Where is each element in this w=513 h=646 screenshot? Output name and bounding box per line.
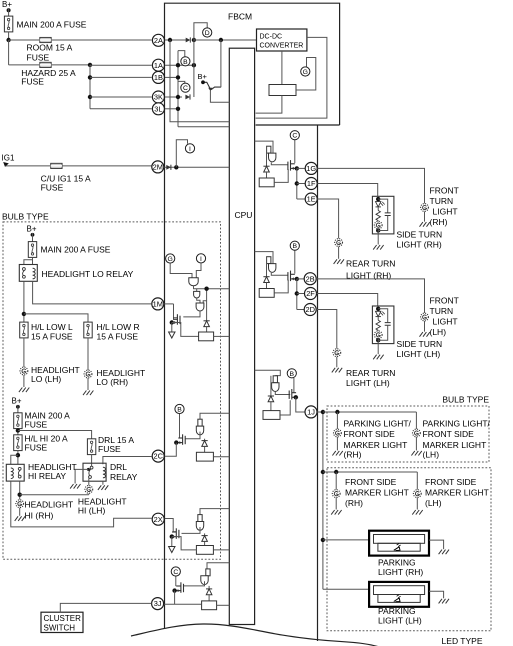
svg-text:FRONT SIDE: FRONT SIDE xyxy=(425,477,477,487)
svg-text:2C: 2C xyxy=(153,452,163,461)
svg-text:ROOM 15 A: ROOM 15 A xyxy=(27,43,73,53)
connector pin 1B xyxy=(152,71,164,83)
supply circle C (turn RH driver U1) xyxy=(290,131,299,140)
svg-text:(RH): (RH) xyxy=(345,498,363,508)
diode clamp (3J) xyxy=(206,589,212,595)
node hi relay split xyxy=(16,453,20,457)
svg-text:C: C xyxy=(183,85,188,92)
wire gate output to FET gate (turn LH driver U2) xyxy=(271,273,288,275)
wire DC-DC bottom to resistor xyxy=(281,51,283,85)
resistor sense (turn LH driver U2) xyxy=(259,289,274,298)
capacitor branch wires xyxy=(378,199,388,212)
wire resistor bottom to CPU xyxy=(256,96,282,114)
wire 3L into module xyxy=(164,108,178,110)
wire supply circle to FET drain (turn RH driver U1) xyxy=(294,140,296,163)
node 3K tap xyxy=(88,95,92,99)
diode clamp (2C) xyxy=(202,441,208,447)
capacitor lower wire xyxy=(378,325,388,340)
wire hi rh bulb to ground xyxy=(19,508,21,516)
signal circle G (lighting switch) xyxy=(166,254,175,263)
svg-text:(LH): (LH) xyxy=(430,327,447,337)
svg-text:(RH): (RH) xyxy=(344,449,362,459)
wire bulb to ground (lo rh) xyxy=(87,378,89,390)
output arrow (to ground) xyxy=(169,332,175,338)
wire FBCM internal rail to right edge xyxy=(256,124,340,126)
relay coil (DRL relay) xyxy=(103,467,106,478)
lamp REAR TURN LIGHT (RH) xyxy=(335,239,343,247)
wire pin 1G to front turn RH xyxy=(317,168,424,203)
wire ROOM fuse to pin 2A xyxy=(51,39,152,41)
wire diode to resistor (2C) xyxy=(204,446,206,452)
svg-text:REAR TURN: REAR TURN xyxy=(346,259,395,269)
module inner lower box xyxy=(378,543,420,551)
wire gate output to FET gate (2X) xyxy=(182,527,201,533)
wire front turn RH to ground xyxy=(424,212,426,222)
svg-text:B+: B+ xyxy=(27,225,37,234)
ground (DRL relay NC) xyxy=(70,484,80,489)
wire G to gate1 xyxy=(170,263,192,278)
FBCM module outline xyxy=(165,3,340,641)
wire to pin 3L xyxy=(90,108,152,110)
resistor sense (1M) xyxy=(199,332,214,341)
wire source down to 1F/1E xyxy=(296,168,298,199)
wire to pin 2B xyxy=(297,278,305,280)
svg-text:PARKING: PARKING xyxy=(378,606,416,616)
node marker RH (bulb type) xyxy=(335,410,339,414)
wire resistor to FET gate bottom (turn LH driver U2) xyxy=(274,280,288,293)
svg-text:15 A FUSE: 15 A FUSE xyxy=(31,331,73,341)
wire lo output to right fuse xyxy=(24,314,88,322)
resistor DC-DC output xyxy=(269,85,296,96)
wire hi relay switch output xyxy=(19,481,21,500)
resistor (zigzag) in module xyxy=(376,320,380,330)
wire CPU branch to gate3 xyxy=(206,289,208,321)
wire lo relay switch down xyxy=(23,281,25,322)
connector pin 1G xyxy=(305,162,317,174)
diode clamp (turn RH driver U1) xyxy=(263,166,269,172)
svg-text:C: C xyxy=(292,133,297,140)
ground (headlight lo lh) xyxy=(19,388,29,393)
lamp FRONT SIDE MARKER LIGHT (LH) xyxy=(413,490,421,498)
lamp PARKING LIGHT/FRONT SIDE MARKER (RH) xyxy=(334,429,342,437)
svg-text:BULB TYPE: BULB TYPE xyxy=(2,212,49,222)
capacitor in module xyxy=(385,213,391,216)
wire pin 1M into module xyxy=(164,303,174,305)
svg-text:B: B xyxy=(293,243,298,250)
wire PARKING LIGHT (LH) to ground xyxy=(429,591,444,598)
driver circle D (hazard output driver) xyxy=(203,28,212,37)
wire left branch to diode (turn RH driver U1) xyxy=(266,146,268,166)
signal circle I (auto light) xyxy=(196,254,205,263)
wire diode to resistor (parking) xyxy=(270,402,272,411)
svg-text:2M: 2M xyxy=(153,163,163,172)
node FET source (3J) xyxy=(172,588,176,592)
module internal feed xyxy=(377,306,379,311)
svg-text:B: B xyxy=(183,59,188,66)
wire source to output arrow (2X) xyxy=(171,537,173,547)
svg-text:LO (RH): LO (RH) xyxy=(97,377,129,387)
svg-text:CPU: CPU xyxy=(235,210,253,220)
ground (marker rh) xyxy=(331,510,341,515)
wire CPU to 2X one-shot xyxy=(200,509,229,515)
ground (PARKING LIGHT (LH)) xyxy=(439,599,449,604)
wire fuse to relay (lo) xyxy=(32,257,34,264)
node lo output xyxy=(22,312,26,316)
module inner bar xyxy=(374,586,425,595)
capacitor in module xyxy=(385,323,391,326)
svg-text:B: B xyxy=(290,371,295,378)
node DC-DC branch xyxy=(219,38,223,42)
CLUSTER SWITCH box xyxy=(41,612,83,632)
wire FET source to pin 1J xyxy=(296,397,305,412)
one-shot gate (3J driver) xyxy=(201,569,210,585)
logic gate 2 xyxy=(194,291,200,298)
wire FET source to pin 3J and resistor xyxy=(174,591,176,605)
wire DC-DC right side to CPU xyxy=(256,37,327,118)
ground (pk/marker lh) xyxy=(411,451,421,456)
svg-text:(LH): (LH) xyxy=(425,498,442,508)
B+ terminal dot (hi) xyxy=(16,405,20,409)
wire to front side markers xyxy=(323,471,417,473)
wire fuse split to switch (lo) xyxy=(24,260,33,265)
wire bulb to module bottom xyxy=(377,229,379,234)
wire DRL coil to ground xyxy=(102,481,104,485)
node DRL NC contact xyxy=(87,468,90,471)
svg-text:REAR TURN: REAR TURN xyxy=(346,368,395,378)
wire gate3 right input xyxy=(203,301,206,303)
node FET source (1M) xyxy=(170,320,174,324)
wire 1B into module xyxy=(164,76,178,78)
relay coil (lo relay) xyxy=(33,268,36,279)
wire IG1 to fuse xyxy=(6,165,51,167)
BULB TYPE dashed box (right) xyxy=(327,406,489,462)
diode clamp (turn LH driver U2) xyxy=(263,277,269,283)
PARKING LIGHT (LH) LED module box xyxy=(369,582,429,607)
svg-text:1F: 1F xyxy=(307,179,316,188)
connector pin 2M xyxy=(152,161,164,173)
wire source branch to resistor (2X) xyxy=(172,537,197,550)
svg-text:PARKING: PARKING xyxy=(378,557,416,567)
wire diode tap (3J) xyxy=(208,586,210,589)
svg-text:I: I xyxy=(189,146,191,153)
connector pin 2F xyxy=(305,288,317,300)
DRL relay switch contacts xyxy=(89,466,93,478)
node CPU branch xyxy=(204,287,208,291)
driver circle B (turn signal driver supply) xyxy=(181,57,190,66)
svg-text:HI (RH): HI (RH) xyxy=(25,510,54,520)
svg-text:3J: 3J xyxy=(154,599,162,608)
lamp FRONT SIDE MARKER LIGHT (RH) xyxy=(332,490,340,498)
svg-text:2A: 2A xyxy=(154,36,163,45)
wire resistor to FET gate bottom (parking) xyxy=(280,400,290,415)
svg-text:LIGHT (RH): LIGHT (RH) xyxy=(378,567,423,577)
ground (SIDE TURN LIGHT (LH)) xyxy=(373,355,383,360)
MOSFET DRL relay driver (2C) xyxy=(176,434,185,445)
wire hi relay coil to pin 2X xyxy=(11,481,152,527)
relay switch (lo relay) xyxy=(23,268,26,279)
svg-text:FUSE: FUSE xyxy=(27,53,50,63)
ground (rear turn rh) xyxy=(334,259,344,264)
wire node down to hazard branch xyxy=(8,40,10,65)
svg-text:FUSE: FUSE xyxy=(98,444,121,454)
bracket to driver B xyxy=(178,51,185,57)
node 1B tap xyxy=(88,75,92,79)
wire hazard fuse to node xyxy=(51,64,90,66)
svg-text:LIGHT (RH): LIGHT (RH) xyxy=(397,239,442,249)
node FET source / pin 1G xyxy=(295,166,299,170)
LED glyph xyxy=(394,544,401,551)
LED glyph xyxy=(394,595,401,602)
node FET source (2C) xyxy=(174,440,178,444)
one-shot gate (2C driver) xyxy=(196,419,203,435)
wire diode to resistor (turn RH driver U1) xyxy=(266,172,268,178)
node 2F tap xyxy=(295,291,299,295)
module node bottom xyxy=(376,228,380,232)
wire node to pin 1A xyxy=(90,64,152,66)
connector pin 2B xyxy=(304,273,316,285)
wire source branch to resistor xyxy=(172,323,199,337)
svg-text:H/L LOW R: H/L LOW R xyxy=(97,322,140,332)
MOSFET output driver (parking U3) xyxy=(289,389,298,400)
svg-text:C: C xyxy=(173,569,178,576)
wire down to bulb (marker lh) xyxy=(416,472,418,490)
svg-text:SIDE TURN: SIDE TURN xyxy=(397,339,443,349)
wire left branch to diode (parking) xyxy=(270,376,272,396)
wire B+ to main fuse (hi) xyxy=(17,405,19,413)
svg-text:HI (LH): HI (LH) xyxy=(78,505,106,515)
resistor (zigzag) in module xyxy=(376,211,380,221)
wire gate output to FET gate (parking) xyxy=(275,392,290,395)
svg-text:B+: B+ xyxy=(12,397,22,406)
one-shot gate (parking driver U3) xyxy=(272,376,279,392)
wire split to coil (hi relay) xyxy=(11,455,18,464)
wire bulb to ground (pk/marker lh) xyxy=(415,437,417,450)
wire pin 1F to side turn RH module xyxy=(317,184,377,197)
node 2M internal xyxy=(174,165,178,169)
relay switch (hi relay) xyxy=(18,467,21,478)
svg-text:MARKER LIGHT: MARKER LIGHT xyxy=(344,440,408,450)
fuse MAIN 200 A FUSE (battery feed) xyxy=(4,16,12,32)
node FET source / pin 2B xyxy=(295,277,299,281)
wire to parking/marker bulbs (bulb type) xyxy=(323,411,417,413)
diode clamp (2X) xyxy=(202,536,208,542)
wire to hazard fuse xyxy=(9,64,40,66)
wire CPU to parking one-shot xyxy=(255,370,281,375)
node 1A to diode-node vertical xyxy=(192,63,196,67)
wire supply circle B to FET drain (parking) xyxy=(293,378,295,393)
wire low R fuse to bulb xyxy=(87,338,89,370)
module node top xyxy=(376,197,380,201)
supply circle B (parking driver) xyxy=(287,369,296,378)
svg-text:LIGHT (LH): LIGHT (LH) xyxy=(397,349,441,359)
lamp in SIDE TURN LIGHT (RH) xyxy=(374,221,382,229)
svg-text:I: I xyxy=(200,256,202,263)
wire resistor to CPU (3J) xyxy=(217,604,230,606)
MOSFET output driver (turn RH driver U1) xyxy=(288,160,297,171)
module inner lower box xyxy=(378,595,420,603)
wire pin 1J feed bus xyxy=(317,412,323,589)
node 1A internal xyxy=(176,63,180,67)
wire pin 2C to DRL coil xyxy=(103,457,152,465)
wire CPU to turn LH driver U2 one-shot xyxy=(255,252,273,264)
lamp PARKING LIGHT/FRONT SIDE MARKER (LH) xyxy=(413,429,421,437)
wire pin 1E to rear turn RH xyxy=(317,199,338,239)
node marker RH (led type) xyxy=(334,470,338,474)
svg-text:1E: 1E xyxy=(307,195,316,204)
svg-text:15 A FUSE: 15 A FUSE xyxy=(97,331,139,341)
wire diode node to DC-DC converter xyxy=(194,39,257,41)
fuse MAIN 200 A FUSE (headlight lo) xyxy=(28,242,36,258)
connector pin 2A xyxy=(152,34,164,46)
wire down to bulb (pk/marker rh) xyxy=(336,412,338,429)
wire supply circle B to FET drain (2C) xyxy=(179,414,181,439)
svg-text:LIGHT (LH): LIGHT (LH) xyxy=(378,616,422,626)
wire DRL fuse into relay xyxy=(91,455,93,467)
module node top xyxy=(376,307,380,311)
lamp HEADLIGHT LO (LH) xyxy=(20,367,28,375)
wire source to output arrow xyxy=(171,323,173,333)
relay HEADLIGHT HI RELAY box xyxy=(6,464,24,481)
wire resistor to bulb xyxy=(377,221,379,222)
B+ dot at transistor xyxy=(201,80,205,84)
B+ terminal dot (headlight lo) xyxy=(31,233,35,237)
MOSFET headlight-lo relay driver xyxy=(171,314,180,325)
connector pin 3J xyxy=(152,598,164,610)
bracket to driver I xyxy=(176,140,187,168)
relay HEADLIGHT LO RELAY box xyxy=(19,265,37,282)
wire to pin 2F xyxy=(297,293,305,295)
svg-text:1M: 1M xyxy=(153,300,163,309)
diode on IG1 feed xyxy=(166,165,171,170)
wire junction output to CPU xyxy=(210,91,229,103)
capacitor branch wires xyxy=(378,309,388,322)
LED TYPE dashed box xyxy=(327,468,491,631)
wire gate output to FET gate (2C) xyxy=(185,432,200,439)
node 1B internal xyxy=(176,75,180,79)
wire gate output to FET gate (turn RH driver U1) xyxy=(271,162,288,164)
svg-text:LIGHT (LH): LIGHT (LH) xyxy=(346,378,390,388)
svg-text:1B: 1B xyxy=(154,73,163,82)
node front side marker bus xyxy=(321,470,325,474)
ground (front turn lh) xyxy=(420,332,430,337)
svg-text:1G: 1G xyxy=(306,164,316,173)
resistor sense (3J) xyxy=(202,601,217,610)
CPU box xyxy=(229,48,254,624)
svg-text:1A: 1A xyxy=(154,61,163,70)
wire rear turn RH to ground xyxy=(338,247,340,259)
ground (headlight lo rh) xyxy=(83,391,93,396)
connector pin 2D xyxy=(304,304,316,316)
fuse ROOM 15 A FUSE xyxy=(40,37,51,42)
node hi output xyxy=(18,493,22,497)
wire 1M to FET drain xyxy=(174,304,178,320)
svg-text:2D: 2D xyxy=(305,305,314,314)
wire to pin 1F xyxy=(297,183,305,185)
svg-text:2B: 2B xyxy=(306,274,315,283)
wire cluster switch to pin 3J xyxy=(60,603,151,612)
wire hazard node down xyxy=(89,65,91,109)
wire resistor to CPU (1M) xyxy=(214,335,230,337)
LED in module xyxy=(376,311,385,316)
svg-text:FRONT SIDE: FRONT SIDE xyxy=(344,429,396,439)
node hazard distribution xyxy=(88,63,92,67)
SIDE TURN LIGHT (RH) module box xyxy=(372,196,394,234)
wire bulb to ground (marker rh) xyxy=(335,498,337,510)
wire 1A into module xyxy=(164,64,194,66)
wire node to DRL fuse xyxy=(18,431,92,440)
wire drain stub (3J) xyxy=(176,585,181,587)
wire resistor to G bracket xyxy=(296,58,316,91)
wire loop up to driver D xyxy=(194,23,207,40)
wire gate1-gate2 jog xyxy=(196,289,198,292)
node parking RH tap xyxy=(321,538,325,542)
connector pin 2C xyxy=(152,450,164,462)
fuse DRL 15 A xyxy=(87,439,95,455)
connector pin 1E xyxy=(305,193,317,205)
wire B+ to main fuse (lo) xyxy=(32,233,34,242)
supply circle B (turn LH driver U2) xyxy=(290,241,299,250)
logic gate 3 xyxy=(196,303,204,311)
logic gate 1 (AND) xyxy=(189,278,198,286)
wire B+ down to main fuse xyxy=(8,8,10,16)
wire to pin 1E xyxy=(297,198,305,200)
wire resistor to FET gate bottom (turn RH driver U1) xyxy=(274,169,288,182)
ground (pk/marker rh) xyxy=(332,451,342,456)
svg-text:IG1: IG1 xyxy=(2,154,15,163)
node FET source (parking) xyxy=(294,395,298,399)
connector pin 3L xyxy=(152,103,164,115)
node after 2A diode xyxy=(192,38,196,42)
svg-text:G: G xyxy=(303,69,308,76)
connector pin 3K xyxy=(152,91,164,103)
wire LED to resistor xyxy=(377,207,379,211)
wire diode to resistor (1M) xyxy=(206,327,208,332)
svg-text:LED TYPE: LED TYPE xyxy=(442,636,483,646)
svg-text:MAIN 200 A FUSE: MAIN 200 A FUSE xyxy=(41,245,111,255)
wire DRL NC to ground xyxy=(75,469,88,483)
svg-text:B+: B+ xyxy=(198,72,208,81)
lamp FRONT TURN LIGHT (LH) xyxy=(421,313,429,321)
wire supply circle to FET drain (turn LH driver U2) xyxy=(294,250,296,273)
resistor sense (turn RH driver U1) xyxy=(259,178,274,187)
connector pin 1J xyxy=(305,406,317,418)
resistor sense (parking) xyxy=(263,411,280,420)
wire to pin 3K xyxy=(90,96,152,98)
supply circle C (3J driver) xyxy=(171,567,180,576)
svg-text:TURN: TURN xyxy=(430,306,454,316)
ground (DRL coil) xyxy=(98,485,108,490)
wire pin 2B to front turn LH xyxy=(316,279,424,313)
output arrow (2X) xyxy=(169,547,175,553)
wire FET source to pin 2C xyxy=(164,443,176,457)
svg-text:PARKING LIGHT/: PARKING LIGHT/ xyxy=(344,418,412,428)
driver circle I (ignition signal) xyxy=(185,144,194,153)
wire left branch to diode (turn LH driver U2) xyxy=(266,257,268,277)
wire CPU to turn RH driver U1 one-shot xyxy=(255,141,273,153)
relay coil (hi relay) xyxy=(11,468,14,479)
wire bulb to ground (pk/marker rh) xyxy=(336,437,338,450)
wire pin 2D to rear turn LH xyxy=(316,310,337,349)
wire gate1 out to gate2 and CPU xyxy=(194,286,230,289)
node parking bus top xyxy=(321,410,325,414)
svg-text:HEADLIGHT LO RELAY: HEADLIGHT LO RELAY xyxy=(42,269,134,279)
one-shot gate (turn LH driver U2) xyxy=(267,257,276,273)
ground (SIDE TURN LIGHT (RH)) xyxy=(373,245,383,250)
svg-text:HEADLIGHT: HEADLIGHT xyxy=(25,500,74,510)
wire PARKING LIGHT (RH) to ground xyxy=(429,540,444,549)
connector pin 1F xyxy=(305,178,317,190)
junction node below main fuse xyxy=(6,38,10,42)
